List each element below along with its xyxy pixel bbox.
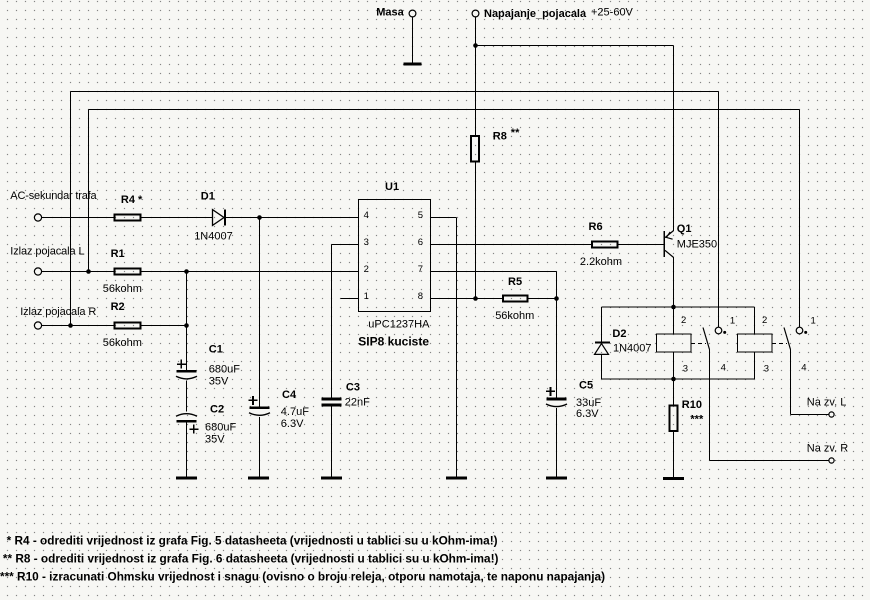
node +V to pin 8 junction: [473, 296, 478, 301]
wire K1 switch pin 4 down: [709, 350, 711, 461]
ground (R10): [663, 477, 684, 480]
resistor R4: [115, 194, 144, 221]
wire R input to R2: [42, 325, 114, 327]
port Na zv. R: [710, 442, 849, 463]
wire K2 switch pin 4 down: [790, 350, 792, 415]
wire rail to R10: [673, 379, 675, 405]
wire C3 to ground: [331, 406, 333, 476]
wire coil K1 top pin: [673, 307, 675, 334]
svg-text:2.2kohm: 2.2kohm: [580, 256, 622, 268]
svg-text:1N4007: 1N4007: [613, 343, 652, 355]
node collector/coil junction: [671, 305, 676, 310]
wire C4 from D1 node: [259, 218, 261, 407]
svg-text:R4 *: R4 *: [121, 194, 143, 206]
svg-text:R8: R8: [493, 130, 507, 142]
node R2 output junction: [184, 323, 189, 328]
node R1 output junction: [184, 269, 189, 274]
wire U1 pin 3 down to C3: [331, 245, 333, 398]
wire C5 to ground: [556, 408, 558, 476]
relay switch K2 contact 1: [796, 327, 807, 334]
wire C1 to C2: [186, 381, 188, 412]
svg-text:**: **: [511, 127, 520, 139]
ground (C5): [546, 477, 567, 480]
wire coil K1 bottom pin: [673, 352, 675, 379]
relay switch K1 arm: [703, 328, 710, 350]
node coil/R10 junction: [671, 377, 676, 382]
power terminal Masa (ground port): [376, 7, 416, 19]
wire AC input to R4: [42, 217, 114, 219]
svg-text:*** R10 - izracunati Ohmsku vr: *** R10 - izracunati Ohmsku vrijednost i…: [0, 569, 605, 583]
capacitor C4 4.7uF 6.3V: [249, 389, 310, 430]
node L-channel tap junction: [86, 269, 91, 274]
capacitor C5 33uF 6.3V: [546, 379, 601, 420]
resistor R8: [471, 130, 507, 161]
svg-text:C5: C5: [579, 379, 593, 391]
svg-text:4: 4: [364, 210, 369, 221]
wire L input to R1: [42, 271, 114, 273]
svg-text:56kohm: 56kohm: [103, 283, 142, 295]
wire R1 to U1 pin 2: [142, 271, 359, 273]
svg-text:U1: U1: [385, 181, 399, 193]
wire coil K2 bottom pin: [754, 352, 756, 379]
svg-text:6.3V: 6.3V: [281, 418, 304, 430]
wire coil K2 top pin: [754, 307, 756, 334]
wire R4 to D1: [142, 217, 213, 219]
ground (C4): [248, 477, 269, 480]
port Na zv. L: [791, 396, 847, 417]
wire relay bottom rail: [602, 378, 755, 380]
relay coil K1: [657, 334, 692, 352]
IC U1 uPC1237HA SIP8: [358, 181, 430, 349]
wire C4 to ground: [259, 417, 261, 477]
svg-text:D1: D1: [201, 191, 215, 203]
svg-text:* R4 - odrediti vrijednost iz: * R4 - odrediti vrijednost iz grafa Fig.…: [7, 533, 498, 547]
port Izlaz pojacala R: [20, 306, 96, 329]
node D1/C4 junction: [257, 215, 262, 220]
diode D2 1N4007 (flyback): [595, 328, 652, 354]
wire U1 pin 7 right and down to C5: [431, 272, 557, 398]
resistor R10: [670, 399, 702, 431]
svg-text:R2: R2: [111, 301, 125, 313]
mechanical link K1: [691, 343, 706, 345]
svg-text:R10: R10: [682, 399, 702, 411]
wire R2 to summing node: [142, 325, 187, 327]
svg-text:1: 1: [730, 315, 735, 326]
port Izlaz pojacala L: [10, 245, 84, 275]
mechanical link K2: [772, 343, 787, 345]
resistor R5 56kohm: [495, 276, 534, 322]
svg-text:4: 4: [801, 363, 806, 374]
svg-text:R5: R5: [508, 276, 522, 288]
svg-text:1: 1: [364, 291, 369, 302]
power terminal Napajanje_pojacala +25-60V: [472, 6, 633, 20]
wire relay top rail: [602, 306, 755, 308]
svg-text:680uF: 680uF: [209, 364, 240, 376]
node R-channel tap junction: [68, 323, 73, 328]
svg-text:4: 4: [721, 363, 726, 374]
svg-text:Na zv. L: Na zv. L: [807, 396, 847, 408]
svg-text:** R8 - odrediti vrijednost iz: ** R8 - odrediti vrijednost iz grafa Fig…: [3, 551, 499, 565]
svg-text:2: 2: [681, 315, 686, 326]
resistor R2: [103, 301, 142, 349]
port AC-sekundar trafa: [10, 190, 97, 221]
svg-text:22nF: 22nF: [345, 396, 370, 408]
svg-text:Izlaz pojacala L: Izlaz pojacala L: [10, 245, 84, 257]
wire U1 pin 3 stub: [332, 244, 359, 246]
svg-text:C3: C3: [346, 382, 360, 394]
svg-text:C1: C1: [209, 344, 223, 356]
wire U1 pin 6 to R6: [431, 244, 592, 246]
svg-text:56kohm: 56kohm: [103, 337, 142, 349]
svg-text:35V: 35V: [209, 375, 229, 387]
wire R10 to ground: [673, 432, 675, 477]
wire R5 to C5 node: [529, 298, 557, 300]
svg-text:Izlaz pojacala R: Izlaz pojacala R: [20, 306, 96, 318]
wire D1 to U1 pin 4: [226, 217, 359, 219]
capacitor C2 680uF 35V: [176, 404, 236, 446]
diode D1 1N4007: [194, 191, 233, 243]
svg-text:Na zv. R: Na zv. R: [807, 442, 848, 454]
relay coil K2: [738, 334, 773, 352]
wire +V from terminal down to R8: [475, 17, 477, 135]
wire Q1 emitter vertical: [673, 46, 675, 231]
svg-text:4.7uF: 4.7uF: [281, 406, 309, 418]
svg-text:Masa: Masa: [376, 7, 404, 19]
svg-text:680uF: 680uF: [205, 422, 236, 434]
capacitor C3 22nF: [322, 382, 370, 409]
ground (Masa): [404, 63, 422, 66]
svg-text:8: 8: [418, 291, 423, 302]
svg-text:+25-60V: +25-60V: [591, 6, 634, 18]
capacitor C1 680uF 35V: [176, 272, 240, 388]
wire Masa vertical: [412, 17, 414, 63]
svg-text:AC-sekundar trafa: AC-sekundar trafa: [10, 190, 97, 202]
svg-text:3: 3: [364, 237, 369, 248]
svg-text:R1: R1: [111, 248, 125, 260]
svg-text:3: 3: [764, 364, 769, 375]
svg-text:SIP8 kuciste: SIP8 kuciste: [358, 335, 429, 349]
svg-text:D2: D2: [612, 328, 626, 340]
svg-text:7: 7: [418, 264, 423, 275]
svg-text:5: 5: [418, 210, 423, 221]
resistor R1: [103, 248, 142, 295]
ground (C3): [321, 477, 342, 480]
svg-text:R6: R6: [589, 221, 603, 233]
svg-text:6: 6: [418, 237, 423, 248]
svg-text:Q1: Q1: [677, 223, 692, 235]
node R5/C5 junction: [554, 296, 559, 301]
wire R6 to Q1 base: [619, 244, 664, 246]
ground (C2): [176, 477, 197, 480]
wire R8 to pin8 net: [475, 163, 477, 299]
wire Q1 collector down to relay rail: [673, 257, 675, 307]
svg-text:uPC1237HA: uPC1237HA: [368, 318, 430, 330]
svg-text:C4: C4: [282, 389, 297, 401]
svg-text:2: 2: [364, 264, 369, 275]
svg-text:MJE350: MJE350: [677, 238, 717, 250]
svg-text:1: 1: [811, 315, 816, 326]
svg-text:C2: C2: [210, 404, 224, 416]
wire R-channel to relay contact 1 (top rail): [71, 92, 719, 328]
resistor R6 2.2kohm: [580, 221, 622, 268]
svg-text:3: 3: [683, 364, 688, 375]
wire D2 top: [601, 307, 603, 342]
svg-text:56kohm: 56kohm: [495, 310, 534, 322]
relay switch K2 arm: [784, 328, 791, 350]
relay switch K1 contact 1: [715, 327, 726, 334]
wire U1 pin 1 stub: [341, 298, 359, 300]
ground (pin 5): [446, 477, 467, 480]
svg-text:6.3V: 6.3V: [576, 408, 599, 420]
svg-text:Napajanje_pojacala: Napajanje_pojacala: [484, 8, 587, 20]
wire C2 to ground: [186, 423, 188, 477]
svg-text:1N4007: 1N4007: [194, 230, 233, 242]
wire +V horizontal to Q1 emitter: [476, 45, 674, 47]
wire U1 pin 8 to R5: [431, 298, 503, 300]
wire L-channel to relay contact 2 (second rail): [89, 110, 800, 328]
wire U1 pin 5 to ground: [431, 218, 457, 477]
wire D2 bottom: [601, 354, 603, 379]
transistor Q1 MJE350 (PNP): [664, 223, 717, 258]
svg-text:***: ***: [690, 413, 704, 425]
svg-text:35V: 35V: [205, 434, 225, 446]
svg-text:2: 2: [762, 315, 767, 326]
node +V junction to Q1 emitter branch: [473, 43, 478, 48]
